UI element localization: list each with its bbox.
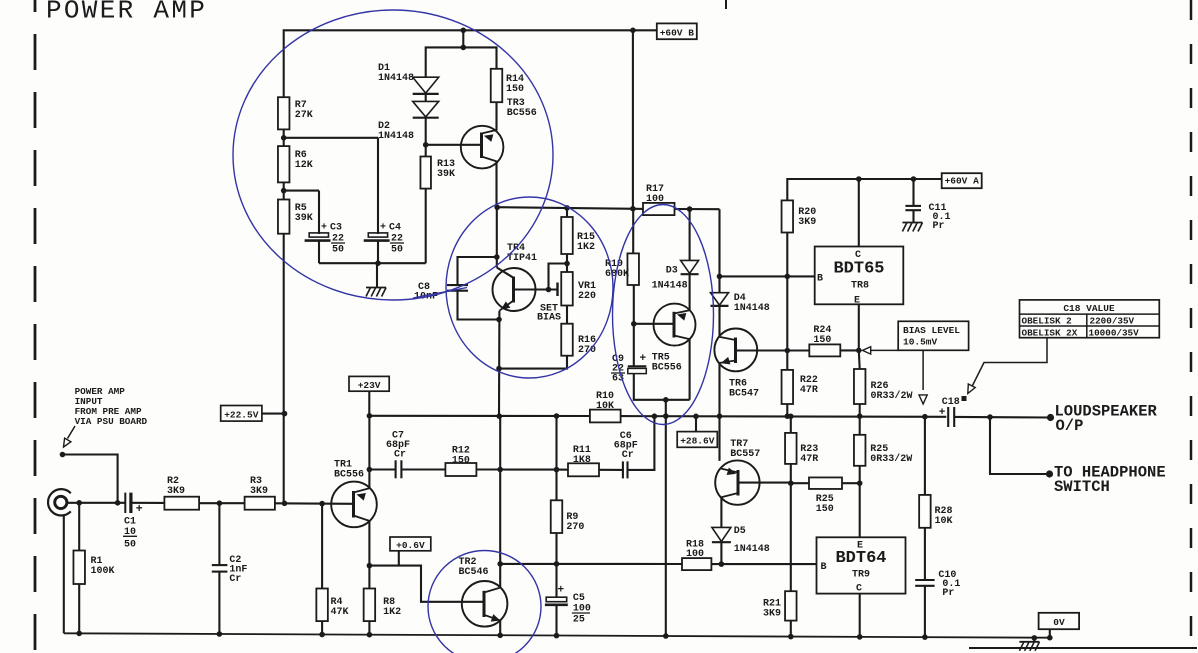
svg-text:47R: 47R (800, 385, 818, 396)
transistor TR5 (654, 304, 696, 346)
svg-text:BC556: BC556 (507, 108, 537, 119)
svg-text:1K2: 1K2 (577, 242, 595, 253)
svg-text:TR8: TR8 (851, 281, 869, 292)
power label +0.6V (390, 537, 431, 551)
wire output rail after C18 (954, 416, 1050, 419)
svg-text:50: 50 (332, 245, 344, 256)
svg-text:12K: 12K (295, 160, 313, 171)
capacitor C7 (395, 460, 397, 478)
svg-text:BDT65: BDT65 (833, 260, 884, 279)
junction bias loop bottom (496, 317, 502, 323)
svg-text:+: + (380, 223, 386, 234)
svg-text:1N4148: 1N4148 (734, 544, 770, 555)
resistor R6 (278, 146, 290, 182)
wire 0V lead (1049, 629, 1051, 638)
wire C10 to bottom rail (924, 586, 926, 637)
wire TR5 collector down (689, 339, 691, 400)
diode D3 (689, 209, 691, 260)
wire R1 column (78, 503, 80, 551)
wire R11 leads (557, 469, 569, 471)
wire TR7 collector to D5 (720, 497, 722, 527)
wire ground stem (376, 263, 378, 287)
svg-text:+60V A: +60V A (945, 175, 980, 186)
junction top rail / main mid column (630, 28, 636, 34)
svg-text:10K: 10K (935, 516, 953, 527)
svg-text:VIA PSU BOARD: VIA PSU BOARD (75, 416, 148, 427)
capacitor C6 (622, 461, 624, 478)
wire D2 to node and R13 (425, 118, 427, 157)
wire R25 leads (791, 482, 809, 484)
wire R21 bottom (790, 621, 792, 637)
svg-text:0R33/2W: 0R33/2W (871, 390, 913, 402)
junction R18 line (497, 561, 503, 567)
resistor R1 (73, 551, 85, 585)
wire R5 bottom long feedback column (283, 234, 285, 504)
wire C1 to R2 (131, 502, 165, 504)
svg-text:0V: 0V (1053, 617, 1065, 628)
svg-text:C5: C5 (573, 593, 585, 604)
wire R8 bottom (368, 621, 370, 635)
junction +28.6V lead (693, 414, 699, 420)
wire TR4 base to VR1 wiper (514, 288, 557, 290)
svg-text:1N4148: 1N4148 (378, 73, 414, 84)
wire D4 column from mid rail (718, 209, 720, 293)
svg-text:C4: C4 (389, 223, 401, 234)
arrow BIAS down to output node (922, 350, 924, 390)
junction R15 top (564, 205, 570, 211)
junction feedback column (282, 501, 288, 507)
svg-text:+: + (558, 584, 565, 596)
resistor R3 (245, 497, 275, 510)
svg-text:B: B (817, 273, 823, 284)
wire mid rail y209 (497, 207, 644, 209)
wire C6 to rail riser (628, 416, 655, 470)
svg-text:SWITCH: SWITCH (1054, 478, 1110, 496)
power label +22.5V (221, 406, 262, 422)
svg-text:3K9: 3K9 (798, 217, 816, 228)
annotation ellipse TR5 (613, 205, 714, 425)
terminal TO HEADPHONE SWITCH (1046, 470, 1053, 477)
wire sub-rail to D1 and R14 (426, 30, 497, 77)
capacitor C5 electrolytic (546, 597, 567, 602)
junction R9 top (554, 467, 560, 473)
ground under C3 C4 (366, 287, 386, 289)
junction R4 column (319, 501, 325, 507)
svg-text:OBELISK 2X: OBELISK 2X (1022, 328, 1078, 339)
svg-text:BIAS: BIAS (537, 313, 561, 324)
svg-text:0R33/2W: 0R33/2W (870, 453, 912, 465)
wire bias loop left with C8 (458, 257, 500, 320)
wire mid rail right of R17 (675, 208, 720, 210)
resistor R9 (551, 500, 563, 533)
svg-text:+60V B: +60V B (660, 27, 695, 38)
svg-text:D5: D5 (734, 526, 746, 537)
wire connector to C1 (67, 502, 125, 504)
junction ground stem bottom right (1032, 635, 1038, 641)
svg-text:3K9: 3K9 (167, 486, 185, 497)
resistor R26 (854, 369, 866, 404)
resistor R7 (278, 97, 290, 129)
wire +23V lead (368, 391, 370, 416)
wire input jumper (63, 455, 118, 503)
svg-text:C18: C18 (942, 397, 960, 408)
svg-text:1N4148: 1N4148 (652, 281, 688, 292)
wire B-line to BDT65 (720, 275, 815, 277)
capacitor C11 (912, 179, 914, 206)
resistor R2 (164, 497, 199, 510)
wire C7 to R12 (401, 468, 445, 470)
resistor R16 (561, 324, 573, 356)
svg-text:1N4148: 1N4148 (734, 303, 770, 314)
junction R9 / R18 line (554, 561, 560, 567)
junction R21 bottom (788, 634, 794, 640)
wire R24 leads (787, 349, 809, 351)
wire BDT64 E lead (859, 483, 861, 537)
svg-text:TIP41: TIP41 (507, 253, 537, 264)
resistor R17 (643, 203, 675, 215)
transistor TR7 (715, 460, 759, 504)
junction +23V / TR1 collector (367, 413, 373, 419)
svg-text:BC556: BC556 (334, 470, 364, 481)
diode D1 (413, 77, 439, 93)
wire +28.6V lead (695, 416, 697, 431)
svg-text:150: 150 (816, 504, 834, 515)
wire R7-R6 junction to C4 (283, 129, 285, 146)
potentiometer VR1 (561, 272, 573, 306)
wire C9 bottom / cell bottom rail (634, 374, 690, 400)
wire C5 bottom (555, 605, 557, 636)
wire TR1 collector column (368, 416, 370, 489)
svg-text:1N4148: 1N4148 (378, 131, 414, 142)
wire R23 column (790, 416, 792, 433)
junction TR7 base / R25 / R21 column (788, 480, 794, 486)
svg-text:39K: 39K (295, 213, 313, 224)
svg-text:POWER AMP: POWER AMP (46, 0, 207, 26)
junction BDT64 E node (857, 480, 863, 486)
wire TR4 emitter column down (498, 311, 500, 417)
svg-text:10.5mV: 10.5mV (903, 337, 938, 348)
junction R9 column top (554, 413, 560, 419)
junction cell bottom to output rail (663, 397, 669, 403)
junction bias node (785, 348, 791, 354)
capacitor C9 electrolytic (628, 365, 647, 367)
wire +60V A rail (787, 179, 941, 200)
capacitor C3 (309, 233, 328, 237)
junction BDT65 C lead (856, 176, 862, 182)
junction +22.5V tap (282, 411, 288, 417)
wire TR2 base path (369, 566, 484, 602)
wire C7 line (369, 468, 395, 470)
power label 0V (1039, 613, 1080, 629)
svg-text:10000/35V: 10000/35V (1089, 328, 1140, 339)
diode D2 (413, 101, 439, 117)
svg-text:BC547: BC547 (729, 389, 759, 400)
wire main mid column from +60V B (632, 30, 634, 208)
wire R6-R5 junction to C3 (283, 182, 285, 199)
power transistor BDT65 TR8 (815, 247, 904, 305)
svg-text:150: 150 (813, 335, 831, 346)
svg-text:+: + (136, 503, 143, 516)
junction mid column / output rail (663, 413, 669, 419)
resistor R20 (782, 200, 794, 232)
wire column down to R21 (790, 483, 792, 591)
wire TR3 emitter to mid rail (495, 162, 497, 207)
annotation ellipse TR2 (428, 551, 541, 653)
svg-text:10K: 10K (596, 401, 614, 412)
transistor TR3 (461, 126, 504, 169)
arrow table to C18 (972, 338, 1048, 388)
wire BDT64 B-line (711, 563, 816, 565)
svg-text:+22.5V: +22.5V (224, 410, 259, 421)
svg-text:270: 270 (566, 522, 584, 533)
resistor R25 0R33/2W (854, 435, 866, 466)
svg-text:3K9: 3K9 (250, 486, 268, 497)
resistor R21 (785, 591, 797, 620)
wire VR1 to R16 (566, 306, 568, 324)
power label +60V B (657, 23, 697, 39)
wire TR6 emitter to rail and TR7 (718, 363, 720, 461)
svg-text:BC546: BC546 (459, 567, 489, 578)
wire TR5 base (634, 323, 674, 325)
svg-text:C1: C1 (124, 516, 136, 527)
junction emitter column / output rail (497, 413, 503, 419)
capacitor C8 (447, 284, 468, 286)
junction R1 bottom (76, 631, 82, 637)
junction TR6/TR7 column on output rail (717, 413, 723, 419)
junction mid column (630, 206, 636, 212)
annotation line C8 (413, 288, 467, 299)
svg-text:C3: C3 (330, 223, 342, 234)
junction R16 link (496, 366, 502, 372)
svg-text:27K: 27K (295, 110, 313, 121)
wire BDT64 C lead (859, 594, 861, 637)
svg-text:BC557: BC557 (730, 449, 760, 460)
svg-text:BC556: BC556 (652, 363, 682, 374)
junction emitter / 0.6V branch (367, 563, 373, 569)
wire R13 bottom (425, 189, 427, 264)
svg-text:150: 150 (452, 456, 470, 467)
svg-text:1K2: 1K2 (383, 607, 401, 618)
svg-text:47K: 47K (331, 607, 349, 618)
wire R9 bottom (555, 533, 557, 597)
junction BDT65 E / R24 / R26 (856, 348, 862, 354)
ground under C11 (902, 222, 922, 224)
resistor R25 150 (809, 477, 842, 489)
resistor R14 (491, 69, 503, 102)
svg-text:100: 100 (686, 549, 704, 560)
resistor R4 (316, 589, 328, 622)
wire D5 to B-line (720, 543, 722, 565)
transistor TR1 (331, 482, 377, 528)
wire R2 to R3 (199, 502, 245, 504)
svg-text:2200/35V: 2200/35V (1090, 316, 1135, 327)
resistor R15 (561, 217, 573, 254)
svg-text:TR9: TR9 (852, 570, 870, 581)
resistor R24 (809, 344, 840, 356)
junction C2 bottom (217, 631, 223, 637)
wire bottom rail (64, 633, 1050, 637)
arrow BIAS to emitter node (871, 349, 898, 351)
wire D1-D2 link (425, 95, 427, 102)
wire mid column to bottom rail (665, 416, 667, 636)
wire R3 to TR1 base (275, 502, 353, 505)
arrow input note (68, 426, 76, 439)
svg-text:C18 VALUE: C18 VALUE (1063, 303, 1115, 314)
junction C7 tap (367, 467, 373, 473)
node D2/R13/TR3-base junction (423, 142, 429, 148)
junction D3 top (687, 206, 693, 212)
wire +22.5V lead (262, 413, 285, 415)
resistor R8 (364, 589, 376, 622)
svg-text:O/P: O/P (1056, 417, 1084, 435)
wire R22 top (786, 351, 788, 370)
capacitor C18 output electrolytic (947, 407, 949, 427)
wire connector ground leg (63, 514, 65, 633)
wire R9 column from rail (555, 416, 557, 500)
capacitor C4 (368, 233, 387, 237)
svg-text:50: 50 (124, 540, 136, 551)
terminal LOUDSPEAKER O/P (1047, 414, 1054, 421)
capacitor C10 (915, 579, 934, 581)
wire D3 to TR5 emitter (689, 275, 691, 311)
wire R12 to TR2 column (476, 468, 500, 470)
input connector (48, 489, 71, 515)
svg-text:Pr: Pr (933, 221, 945, 232)
junction R4 bottom (319, 632, 325, 638)
svg-text:Pr: Pr (942, 588, 954, 599)
wire R19 bottom to C9 (633, 285, 635, 366)
junction bias loop top (494, 254, 500, 260)
wire TR3 base (426, 144, 482, 146)
power label +28.6V (677, 432, 717, 448)
svg-text:+0.6V: +0.6V (396, 540, 425, 551)
junction TR5 base node (631, 321, 637, 327)
resistor R12 (445, 463, 476, 476)
wire TR2 collector column (499, 416, 501, 587)
power label +60V A (942, 173, 982, 188)
wire output rail left part (369, 415, 590, 417)
wire R19 column top (632, 209, 634, 254)
capacitor C2 (218, 503, 220, 565)
power label +23V (349, 376, 389, 391)
wire TR7 base (738, 482, 791, 484)
annotation ellipse input stage (233, 10, 553, 300)
resistor R18 (682, 558, 711, 570)
wire D4 to TR6 collector (718, 306, 720, 337)
svg-text:BIAS LEVEL: BIAS LEVEL (903, 325, 960, 336)
wire R14 to TR3 collector (495, 102, 497, 130)
resistor R10 (590, 410, 621, 423)
diode D5 (712, 527, 731, 541)
svg-text:+28.6V: +28.6V (680, 436, 715, 447)
svg-text:47R: 47R (800, 454, 818, 465)
power transistor BDT64 TR9 (817, 537, 906, 593)
svg-text:50: 50 (391, 245, 403, 256)
wire VR1 top bypass (549, 264, 568, 290)
wire output rail right part (621, 415, 947, 418)
resistor R28 (919, 495, 931, 528)
wire +0.6V lead (398, 551, 400, 566)
svg-text:D3: D3 (666, 266, 678, 277)
ground bottom right (1033, 638, 1035, 642)
svg-text:Cr: Cr (394, 450, 406, 461)
junction BDT64 C bottom (857, 634, 863, 640)
wire R16 bottom to TR4 emitter (499, 356, 567, 369)
transistor TR6 (714, 329, 757, 372)
resistor R5 (278, 200, 290, 234)
wire R22 bottom (786, 404, 788, 416)
wire R20 column to bias node (786, 233, 788, 351)
wire BDT65 emitter lead (858, 304, 860, 350)
svg-text:BDT64: BDT64 (835, 549, 886, 568)
input node dot (60, 452, 66, 458)
svg-text:100: 100 (646, 194, 664, 205)
svg-text:+: + (321, 223, 327, 234)
wire R23 bottom to TR7 base node (790, 464, 792, 483)
wire TR1 emitter column (368, 521, 370, 589)
wire +60V B top rail (284, 30, 657, 97)
svg-text:220: 220 (578, 291, 596, 302)
transistor TR2 (462, 581, 508, 627)
svg-text:B: B (821, 562, 827, 573)
resistor R22 (782, 370, 794, 404)
junction C5 bottom (554, 633, 560, 639)
callout box BIAS LEVEL (898, 321, 968, 350)
wire C3 C4 bottom rail (318, 241, 320, 264)
svg-text:+: + (640, 353, 647, 365)
table C18 VALUE (1020, 300, 1160, 338)
junction B-line BDT65 (717, 274, 723, 280)
junction C11 (911, 176, 917, 182)
wire TR4 collector column (496, 207, 498, 267)
junction headphone branch (987, 414, 993, 420)
junction C2 branch (217, 500, 223, 506)
capacitor C1 (124, 493, 126, 513)
transistor TR4 (493, 268, 536, 311)
junction input jumper (115, 500, 121, 506)
junction R26 output rail (857, 413, 863, 419)
junction B-line R20 column (785, 274, 791, 280)
svg-text:Cr: Cr (229, 574, 241, 585)
wire TR2 column to R9 top (500, 468, 556, 470)
svg-text:150: 150 (506, 84, 524, 95)
resistor R13 (420, 157, 431, 189)
wire BDT65 collector lead (858, 179, 860, 247)
wire TR6 base to bias node (736, 349, 788, 351)
svg-text:+23V: +23V (358, 380, 381, 391)
svg-text:1K8: 1K8 (573, 455, 591, 466)
junction R8 bottom (367, 632, 373, 638)
svg-text:C: C (856, 584, 862, 595)
svg-text:OBELISK 2: OBELISK 2 (1022, 316, 1073, 327)
svg-text:25: 25 (573, 615, 585, 626)
wire headphone branch (990, 417, 1050, 474)
resistor R19 (627, 253, 639, 285)
junction top rail / D1-R14 riser (461, 28, 467, 34)
resistor R11 (568, 463, 599, 476)
junction R1 column (76, 500, 82, 506)
svg-text:Cr: Cr (622, 450, 634, 461)
svg-text:100K: 100K (91, 566, 115, 577)
svg-text:3K9: 3K9 (763, 609, 781, 620)
resistor R23 (785, 433, 797, 464)
wire R18 line (500, 563, 682, 565)
junction TR2 emitter bottom (497, 633, 503, 639)
svg-text:39K: 39K (437, 169, 455, 180)
wire R28 column (924, 417, 926, 495)
annotation ellipse TR4 (446, 197, 613, 378)
junction C7/R12 line (497, 467, 503, 473)
